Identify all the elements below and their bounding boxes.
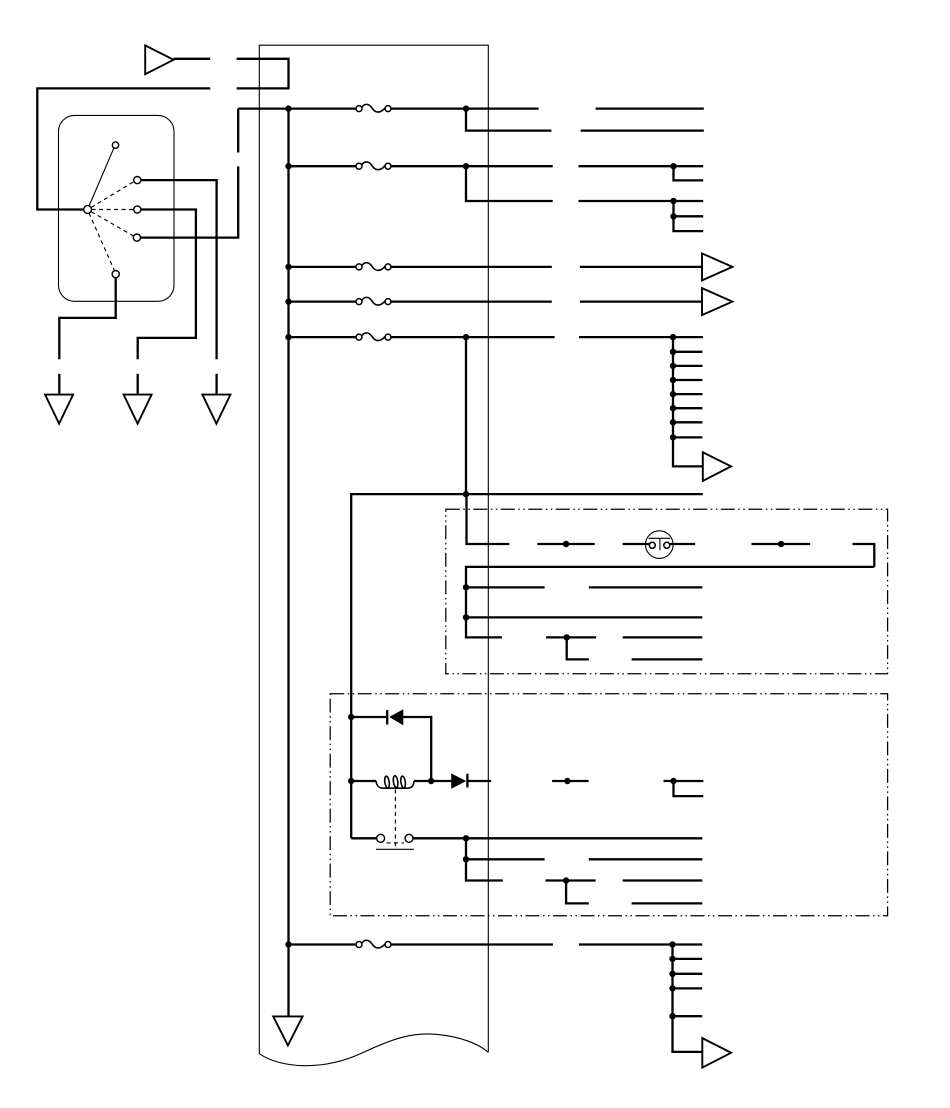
wire from contact 3 down	[138, 210, 196, 360]
relay contact terminal right	[405, 834, 413, 842]
fuse row 5 wire after gap	[579, 336, 703, 338]
lamp row segment 4	[669, 543, 695, 545]
junction dot	[669, 985, 675, 991]
comb stub 4	[673, 393, 702, 395]
fuse F6	[356, 940, 391, 948]
bottom comb stub 3	[673, 987, 703, 989]
feed row at top of accessory box	[466, 493, 703, 495]
relay box row 2	[466, 858, 545, 860]
fuse row 6 wire left	[289, 943, 357, 945]
fuse row 5 wire left	[289, 336, 357, 338]
junction dot	[463, 334, 469, 340]
ignition switch common contact	[84, 206, 92, 214]
coil row segment 2	[552, 780, 589, 782]
relay moving contact (dashed)	[387, 842, 405, 844]
relay box row 2 after gap	[589, 858, 703, 860]
wire U-turn at J/B edge	[237, 59, 289, 89]
relay contact wire left	[351, 837, 376, 839]
relay actuation dashed link	[394, 790, 396, 848]
ground stub 1	[58, 374, 60, 395]
junction dot	[670, 349, 676, 355]
accessory row 4 segment	[546, 636, 596, 638]
fuse row 1 branch	[466, 109, 551, 131]
junction dot	[463, 856, 469, 862]
lighter element right	[664, 542, 670, 548]
diode D1 cathode bar	[386, 710, 388, 724]
junction dot	[669, 941, 675, 947]
junction dot	[285, 941, 291, 947]
junction dot	[670, 419, 676, 425]
connector arrow A (top left, points right)	[145, 45, 173, 74]
fuse F4	[356, 297, 391, 305]
ignition switch contact 3	[134, 206, 141, 213]
coil to diode D2 wire	[414, 780, 452, 782]
fuse row 3 wire left	[289, 266, 357, 268]
wire from arrow A	[174, 58, 211, 60]
junction dot	[463, 163, 469, 169]
relay box drop	[466, 838, 503, 880]
relay box row 3 segment	[546, 879, 596, 881]
comb stub 2	[673, 365, 702, 367]
fuse row 2 lower branch stub	[674, 215, 704, 217]
junction dot	[669, 1013, 675, 1019]
diode D1 wire right	[403, 717, 431, 781]
ground arrow 2	[124, 395, 152, 424]
junction dot	[563, 541, 569, 547]
junction dot	[669, 971, 675, 977]
lamp row segment 2	[537, 543, 594, 545]
fuse F5	[356, 333, 391, 341]
junction dot	[285, 264, 291, 270]
row 5 comb vertical to arrow	[673, 337, 703, 466]
diode D1 wire left	[351, 716, 386, 718]
wire from contact 4 up to fuse row 1	[141, 166, 239, 237]
comb stub 6	[673, 421, 702, 423]
relay coil loop 2	[393, 775, 399, 787]
bottom comb stub 4	[673, 1015, 703, 1017]
wire from contact 2 down	[141, 180, 217, 359]
bottom comb stub 1	[673, 958, 703, 960]
relay coil loop 1	[384, 776, 390, 788]
ignition switch contact 2	[134, 177, 141, 184]
cigarette lighter body	[646, 531, 674, 559]
relay box row 3 drop	[566, 881, 589, 904]
comb stub 5	[673, 407, 702, 409]
junction block J/B outline	[259, 45, 488, 1053]
fuse row 1 wire left	[238, 107, 356, 109]
junction dot	[670, 163, 676, 169]
ignition switch contact 4	[133, 234, 140, 241]
junction dot	[285, 334, 291, 340]
connector arrow C (row 4)	[702, 288, 732, 315]
junction dot	[564, 778, 570, 784]
relay box row 3 after gap	[623, 879, 703, 881]
fuse F1	[356, 104, 391, 112]
junction dot	[428, 778, 434, 784]
main bus wire	[287, 109, 289, 1017]
ignition switch contact 1	[112, 142, 118, 148]
wire to ignition switch common	[37, 88, 210, 209]
diode D2 cathode bar	[466, 774, 468, 788]
fuse row 1 wire after gap	[596, 107, 704, 109]
diode D2 (points right)	[452, 774, 465, 788]
fuse row 3 wire right	[391, 266, 552, 268]
diode D2 wire right	[467, 780, 491, 782]
ignition switch dashed arm to contact 4	[91, 212, 133, 236]
fuse F3	[356, 263, 391, 271]
junction dot	[670, 434, 676, 440]
fuse row 6 after gap	[579, 943, 702, 945]
junction dot	[463, 584, 469, 590]
accessory row 4 drop	[567, 637, 589, 659]
lighter center pin	[659, 538, 661, 550]
lighter chord	[649, 537, 671, 539]
junction dot	[563, 877, 569, 883]
lamp row return loop	[853, 544, 875, 567]
wire from contact 5 down	[59, 278, 115, 360]
fuse row 2 lower branch comb	[674, 201, 704, 231]
fuse row 4 wire left	[289, 300, 357, 302]
fuse row 2 lower branch	[466, 166, 553, 201]
fuse row 2 lower branch after gap	[579, 200, 704, 202]
junction dot	[463, 835, 469, 841]
junction dot	[285, 163, 291, 169]
junction dot	[463, 491, 469, 497]
relay coil loop 3	[400, 776, 406, 788]
fuse row 2 wire after gap	[579, 165, 704, 167]
feed to relay coil branch	[351, 494, 466, 838]
junction dot	[778, 541, 784, 547]
junction dot	[285, 105, 291, 111]
relay feed junction dot	[348, 714, 354, 720]
relay box (dash-dot outline)	[330, 694, 887, 916]
fuse row 5 wire right	[391, 336, 555, 338]
ignition switch dashed arm to contact 2	[91, 182, 134, 208]
accessory return row	[466, 567, 874, 638]
fuse row 1 wire right	[391, 107, 539, 109]
junction dot	[670, 405, 676, 411]
junction dot	[670, 391, 676, 397]
fuse row 6 wire right	[391, 943, 553, 945]
accessory row 2	[466, 586, 545, 588]
comb stub 3	[673, 379, 702, 381]
connector arrow B (row 3)	[702, 253, 732, 280]
diode D1 (points left)	[390, 710, 403, 724]
bottom comb vertical to arrow	[673, 945, 703, 1052]
riser from row 5 to accessory box	[465, 337, 467, 494]
comb stub 7	[673, 436, 702, 438]
fuse row 2 right branch	[674, 166, 704, 180]
ground arrow 1	[45, 395, 73, 424]
fuse row 4 wire right	[391, 300, 552, 302]
comb stub 1	[673, 351, 702, 353]
ignition switch dashed arm to contact 5	[89, 213, 114, 270]
fuse row 4 wire after gap	[580, 300, 702, 302]
fuse row 3 wire after gap	[580, 266, 702, 268]
accessory row 5 after gap	[632, 658, 703, 660]
accessory row 2 after gap	[589, 586, 703, 588]
lamp row segment 5	[752, 543, 811, 545]
fuse row 2 wire left	[289, 165, 357, 167]
coil row segment 3	[664, 780, 704, 782]
accessory row 4 after gap	[623, 636, 703, 638]
ground stub 2	[137, 374, 139, 395]
junction dot	[670, 377, 676, 383]
connector arrow E (bottom)	[702, 1038, 731, 1068]
ignition switch rotor arm (solid, position 1)	[89, 148, 114, 205]
bottom comb stub 2	[673, 973, 703, 975]
lighter element left	[649, 542, 655, 548]
relay contact terminal left	[377, 834, 385, 842]
junction dot	[670, 778, 676, 784]
junction dot	[348, 778, 354, 784]
lamp row segment 3	[623, 543, 650, 545]
junction dot	[670, 198, 676, 204]
accessory row 3	[466, 616, 702, 618]
lamp row drop inside accessory box	[467, 494, 510, 544]
wire gap continuation above contact 4 riser	[237, 109, 239, 153]
relay contact bar	[376, 848, 414, 850]
relay coil wire left	[351, 780, 376, 782]
junction dot	[564, 634, 570, 640]
ground stub 3	[215, 374, 217, 395]
wire break wave at bottom of J/B	[259, 1034, 488, 1066]
junction dot	[463, 105, 469, 111]
relay box row 4 after gap	[632, 902, 703, 904]
junction dot	[670, 213, 676, 219]
ignition switch dashed arm to contact 3	[92, 209, 134, 211]
fuse F2	[356, 162, 391, 170]
relay contact wire right	[413, 837, 702, 839]
bus ground arrow	[273, 1016, 302, 1045]
junction dot	[670, 363, 676, 369]
junction dot	[463, 614, 469, 620]
junction dot	[285, 298, 291, 304]
fuse row 2 wire right	[391, 165, 553, 167]
coil row right branch	[674, 781, 704, 796]
ignition switch housing	[59, 115, 175, 301]
fuse row 1 branch after gap	[581, 129, 704, 131]
connector arrow D (row 5 comb)	[703, 452, 731, 481]
ignition switch contact 5	[112, 271, 119, 278]
ground arrow 3	[202, 395, 230, 424]
junction dot	[669, 956, 675, 962]
junction dot	[670, 334, 676, 340]
relay coil L1 dip	[376, 781, 414, 788]
accessory box (dash-dot outline)	[446, 509, 888, 674]
